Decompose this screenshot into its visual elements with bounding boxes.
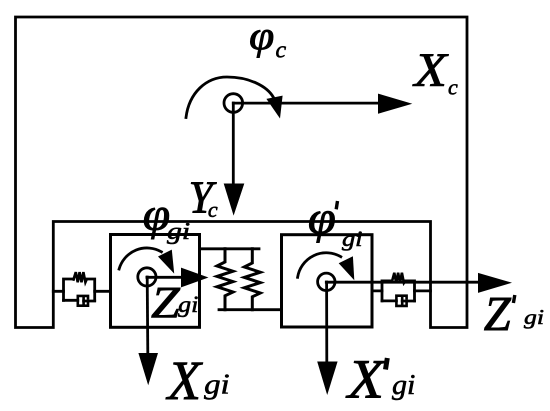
arrow Zgi [147,276,183,279]
left suspension link wire [53,290,110,293]
left damper cup [78,296,88,306]
prime of X'gi [386,358,388,370]
mesh spring top bar [200,247,260,250]
arrowhead Xgi [138,353,158,385]
mesh spring 2 [244,249,260,310]
right spring (zigzag) [392,273,405,283]
svg-text:φ: φ [249,13,274,58]
svg-text:Z: Z [151,278,180,327]
arrowhead Zgi [181,268,209,288]
arrow Xgi [146,277,149,354]
svg-text:X: X [346,349,387,410]
left damper piston [82,297,85,305]
svg-text:X: X [166,350,204,411]
svg-text:c: c [448,74,458,99]
left gear box [111,235,200,328]
rotation arc phi-gi left [119,248,161,269]
prime of Z'gi [513,295,514,303]
arrow Xc [233,102,380,105]
svg-text:gi: gi [392,370,415,401]
rotation arc phi-c [186,77,274,118]
svg-text:Z: Z [484,286,512,341]
arrowhead X'gi [317,362,337,396]
rotation arc phi-gi right [298,253,341,278]
arrowhead Yc [224,184,245,216]
left spring (zigzag) [74,272,87,282]
right gear box [282,235,373,327]
arrowhead arc phi-gi right [339,256,355,280]
arrowhead Xc [378,94,412,114]
svg-text:gi: gi [178,292,198,317]
arrowhead Z'gi [478,273,512,293]
arrow X'gi [325,282,328,363]
svg-text:gi: gi [524,305,544,329]
svg-text:gi: gi [167,219,190,245]
right damper piston [401,297,404,305]
arrow Yc [232,103,235,186]
left damper rod and bottom edge [64,299,95,303]
right pivot circle [318,273,335,290]
left spring-damper box [64,279,95,300]
right spring-damper box [382,281,415,301]
right suspension link wire [372,289,431,292]
svg-text:c: c [276,38,287,64]
arrowhead arc phi-c [266,96,282,119]
car body outline [16,17,468,328]
svg-text:X: X [412,44,448,97]
mesh spring bottom bar [219,308,282,311]
right damper rod and bottom edge [382,299,415,302]
arrow Z'gi [326,281,479,284]
prime of phi'gi [336,201,337,209]
svg-text:φ: φ [308,192,336,243]
mesh spring 1 [217,249,233,310]
svg-text:gi: gi [342,226,362,251]
arrowhead arc phi-gi left [158,250,174,274]
pivot circle Oc [224,94,243,113]
svg-text:c: c [208,197,218,222]
svg-text:gi: gi [204,370,230,401]
right damper cup [396,296,406,306]
left pivot circle [138,268,156,286]
